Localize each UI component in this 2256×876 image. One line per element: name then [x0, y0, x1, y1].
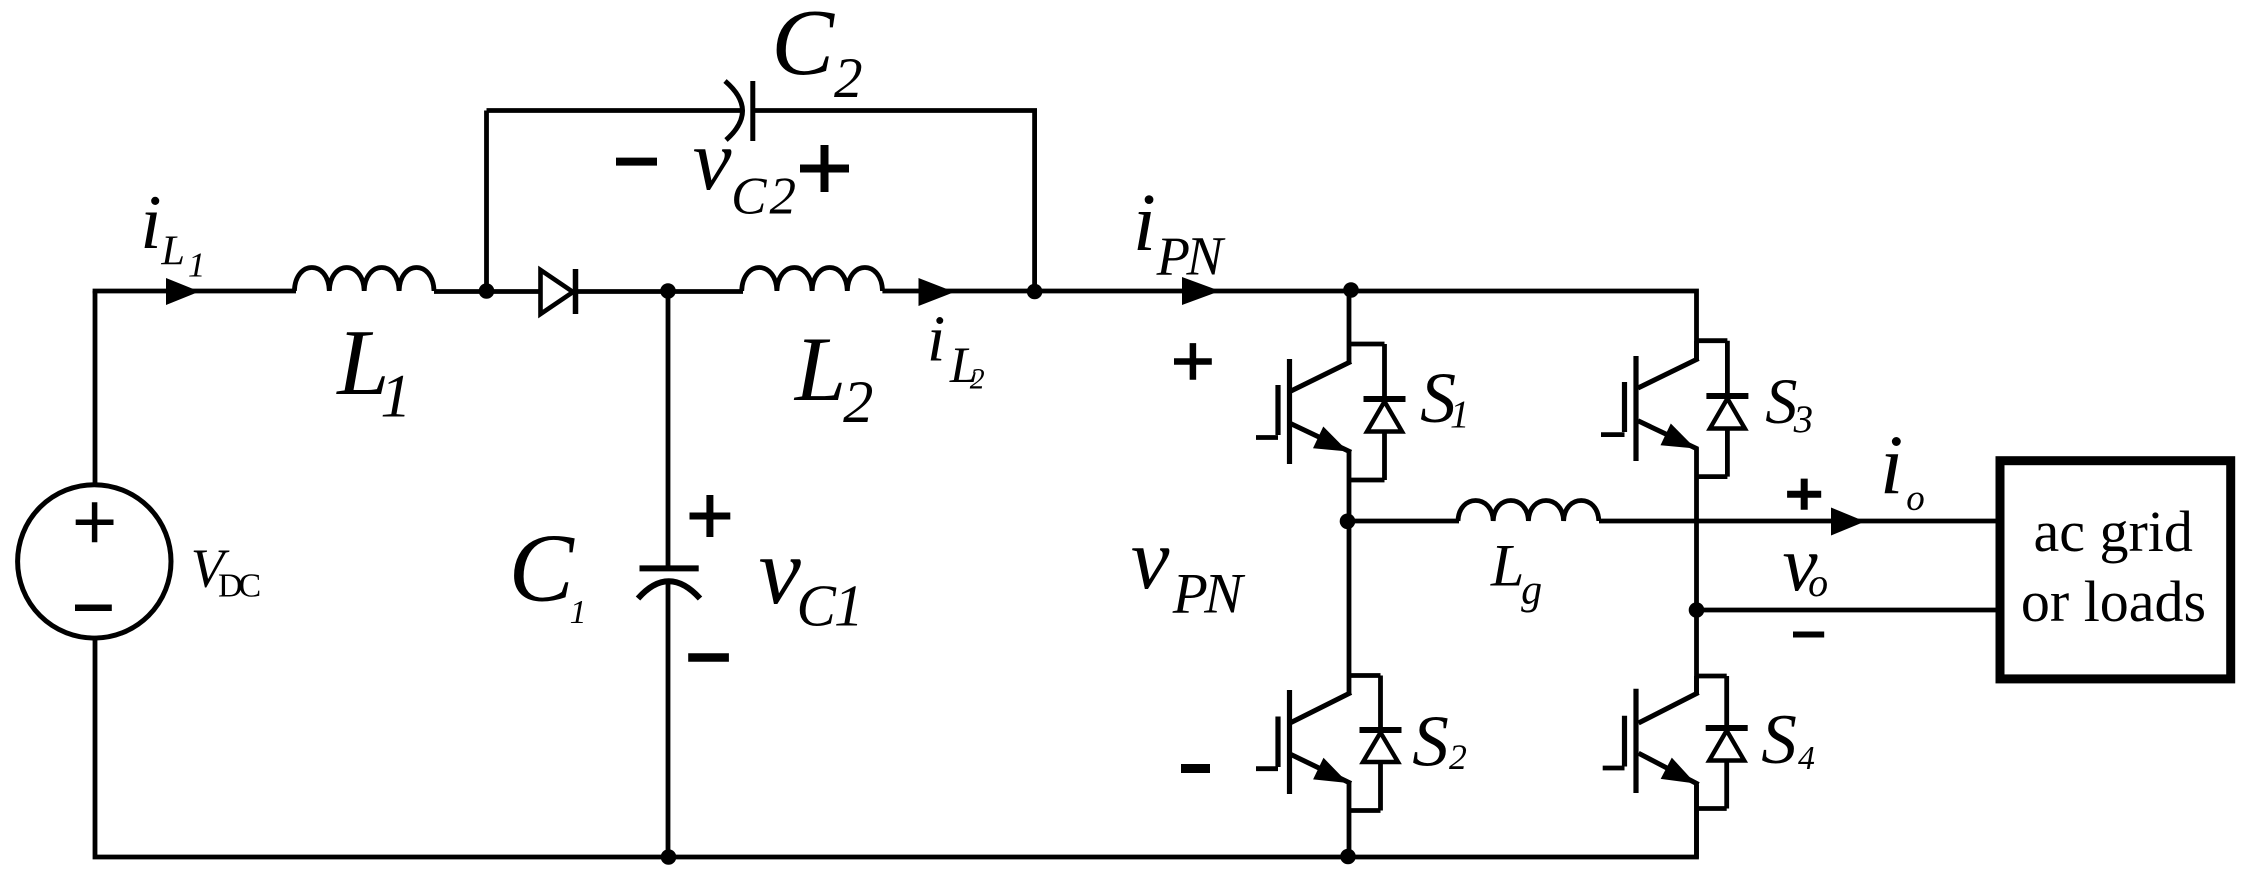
- transistor S2 (IGBT) collector diagonal: [1291, 693, 1351, 723]
- transistor S3 (IGBT) emitter wire: [1694, 448, 1699, 694]
- antiparallel diode of S3 (IGBT): anode/cathode leads: [1697, 341, 1728, 477]
- antiparallel diode of S1 (IGBT): cathode bar: [1364, 396, 1406, 402]
- transistor S3 (IGBT) gate bar: [1622, 382, 1627, 432]
- label iPN (dc-link current): [1133, 176, 1226, 287]
- wire: output bottom line from node E to ac-grid box: [1697, 608, 2001, 613]
- label vo (output voltage): [1783, 521, 1829, 608]
- svg-text:N: N: [1186, 226, 1226, 287]
- svg-text:1: 1: [380, 363, 411, 431]
- label vC1 (capacitor voltage): [759, 518, 864, 638]
- label Lg (grid inductor ref): [1490, 533, 1542, 614]
- svg-text:or loads: or loads: [2021, 569, 2206, 634]
- wire: top rail between L1 and diode D: [434, 289, 541, 294]
- capacitor C2 curved left plate: [725, 81, 743, 140]
- svg-text:i: i: [140, 179, 161, 265]
- transistor S1 (IGBT) collector wire: [1347, 291, 1352, 363]
- transistor S1 (IGBT) gate bar: [1275, 385, 1280, 435]
- transistor S4 (IGBT) gate lead: [1603, 766, 1625, 771]
- inductor Lg: [1458, 501, 1599, 521]
- voltage source plus sign: [76, 502, 114, 542]
- antiparallel diode of S4 (IGBT): anode/cathode leads: [1697, 676, 1727, 809]
- transistor S4 (IGBT) gate bar: [1622, 716, 1627, 767]
- svg-text:o: o: [1808, 560, 1828, 605]
- transistor S4 (IGBT) emitter arrowhead: [1661, 758, 1696, 784]
- C1 polarity plus sign: [690, 495, 731, 537]
- svg-text:S: S: [1761, 701, 1797, 779]
- wire: top rail between diode D and node B: [578, 289, 743, 294]
- svg-text:3: 3: [1793, 398, 1813, 441]
- wire: C1 branch upper (node B down to C1 top plate): [666, 291, 671, 568]
- transistor S1 (IGBT) collector diagonal: [1291, 362, 1351, 392]
- svg-text:1: 1: [188, 245, 206, 284]
- svg-text:2: 2: [1449, 737, 1467, 777]
- current arrow iL1: [166, 278, 200, 305]
- svg-text:C: C: [509, 514, 576, 622]
- transistor S3 (IGBT) body bar: [1633, 356, 1638, 461]
- vPN plus sign: [1174, 343, 1212, 380]
- transistor S3 (IGBT) emitter diagonal: [1638, 421, 1698, 450]
- svg-text:v: v: [759, 518, 802, 624]
- wire: top rail from L2 to bridge top-right corner: [882, 291, 1696, 360]
- svg-text:2: 2: [770, 168, 797, 226]
- wire: top rail left segment (source corner to L1): [93, 289, 296, 294]
- svg-text:L: L: [160, 227, 185, 274]
- wire: C1 branch lower (C1 bottom to bottom rail node): [666, 584, 671, 857]
- label vC2 (capacitor voltage): [693, 111, 796, 226]
- current arrow iL2: [919, 278, 955, 306]
- antiparallel diode of S4 (IGBT): cathode bar: [1706, 725, 1748, 731]
- label L1 (inductor value): [335, 311, 411, 431]
- svg-text:2: 2: [834, 47, 863, 110]
- C2 polarity plus sign: [800, 145, 849, 192]
- voltage source minus sign: [75, 605, 112, 612]
- node N (C1 bottom / bottom rail): [661, 849, 677, 865]
- transistor S3 (IGBT) emitter arrowhead: [1661, 424, 1696, 449]
- transistor S4 (IGBT) collector wire: [1694, 676, 1699, 694]
- node B (diode-L2-C1 junction): [660, 283, 676, 299]
- antiparallel diode of S3 (IGBT): cathode bar: [1706, 393, 1748, 399]
- svg-text:L: L: [1490, 533, 1524, 600]
- label vPN (dc-link voltage): [1131, 511, 1246, 625]
- label iL2 (current into bridge): [927, 303, 985, 396]
- svg-text:i: i: [1133, 176, 1156, 268]
- svg-text:v: v: [1131, 511, 1170, 607]
- transistor S2 (IGBT) collector wire: [1347, 521, 1352, 694]
- svg-text:i: i: [927, 303, 945, 376]
- svg-text:L: L: [793, 318, 846, 420]
- capacitor C1 top plate: [640, 565, 699, 571]
- wire: C2 branch top-right horizontal and right vertical down to node C: [753, 111, 1035, 292]
- transistor S1 (IGBT) emitter wire: [1347, 451, 1352, 521]
- C1 polarity minus sign: [688, 653, 729, 662]
- svg-text:1: 1: [834, 572, 864, 638]
- svg-text:2: 2: [843, 369, 873, 436]
- label C1 (capacitor ref): [509, 514, 587, 631]
- transistor S2 (IGBT) gate lead: [1256, 766, 1278, 771]
- transistor S4 (IGBT) emitter diagonal: [1639, 753, 1699, 784]
- transistor S3 (IGBT) collector diagonal: [1638, 359, 1699, 389]
- inductor L1: [294, 268, 434, 291]
- node E (right leg midpoint / vo): [1689, 602, 1705, 618]
- C2 polarity minus sign: [616, 158, 657, 166]
- label L2 (inductor ref): [793, 318, 873, 436]
- wire: left branch from source up to top rail: [93, 291, 98, 486]
- wire: bridge mid rail from node D to Lg: [1349, 519, 1460, 524]
- transistor S4 (IGBT) collector-to-diode jog: [1697, 674, 1727, 679]
- svg-text:1: 1: [570, 594, 587, 631]
- node D (left leg midpoint / Lg): [1340, 514, 1356, 530]
- transistor S3 (IGBT) collector-to-diode jog: [1697, 338, 1728, 343]
- svg-text:C: C: [797, 572, 837, 638]
- svg-text:P: P: [1172, 563, 1208, 626]
- transistor S1 (IGBT) body bar: [1287, 359, 1292, 464]
- label S1 (switch ref): [1420, 358, 1469, 438]
- node P (bridge left leg top): [1343, 282, 1359, 298]
- svg-text:o: o: [1906, 478, 1925, 519]
- capacitor C2 straight right plate: [750, 81, 755, 141]
- transistor S1 (IGBT) emitter arrowhead: [1313, 427, 1348, 452]
- svg-text:C: C: [239, 568, 262, 605]
- diode D triangle: [541, 270, 574, 314]
- wire: C2 branch left vertical (node A up): [484, 111, 489, 292]
- transistor S3 (IGBT) collector wire: [1694, 341, 1699, 360]
- antiparallel diode of S2 (IGBT): triangle: [1363, 733, 1398, 763]
- voltage source VDC circle: [18, 485, 171, 638]
- io plus sign: [1787, 479, 1821, 510]
- transistor S2 (IGBT) collector-to-diode jog: [1349, 673, 1381, 678]
- transistor S2 (IGBT) emitter diagonal: [1291, 755, 1351, 784]
- transistor S1 (IGBT) emitter diagonal: [1291, 424, 1351, 453]
- label iL1 (current into L1): [140, 179, 205, 285]
- label C2 (capacitor ref): [771, 0, 862, 110]
- label io (output current): [1880, 419, 1925, 519]
- transistor S4 (IGBT) emitter wire: [1694, 783, 1699, 858]
- svg-text:C: C: [771, 0, 835, 95]
- svg-text:4: 4: [1798, 740, 1815, 777]
- antiparallel diode of S4 (IGBT): triangle: [1709, 731, 1744, 761]
- current arrow io: [1831, 508, 1865, 536]
- wire: source bottom to bottom rail, bottom rail, right corner up into S4 emitter: [95, 637, 1697, 857]
- transistor S4 (IGBT) body bar: [1633, 689, 1638, 793]
- antiparallel diode of S2 (IGBT): anode/cathode leads: [1349, 676, 1381, 811]
- inductor L2: [742, 268, 883, 291]
- transistor S1 (IGBT) gate lead: [1256, 435, 1278, 440]
- antiparallel diode of S2 (IGBT): cathode bar: [1360, 727, 1402, 733]
- vo minus sign: [1793, 632, 1824, 638]
- ac grid or loads box: [2000, 461, 2231, 679]
- svg-text:1: 1: [1450, 393, 1469, 436]
- antiparallel diode of S1 (IGBT): triangle: [1367, 402, 1402, 432]
- node A (L1-diode-C2 junction): [479, 283, 495, 299]
- capacitor C1 curved bottom plate: [638, 581, 700, 598]
- svg-text:i: i: [1880, 419, 1903, 512]
- svg-text:P: P: [1156, 226, 1190, 287]
- svg-text:C: C: [731, 168, 767, 226]
- label VDC (source voltage): [191, 538, 261, 605]
- svg-text:g: g: [1521, 568, 1542, 614]
- transistor S4 (IGBT) collector diagonal: [1639, 693, 1699, 724]
- label S4 (switch ref): [1761, 701, 1815, 779]
- transistor S3 (IGBT) gate lead: [1601, 432, 1625, 437]
- label S3 (switch ref): [1765, 366, 1813, 441]
- wire: output top line from Lg through crossing to ac-grid box: [1599, 519, 2000, 524]
- transistor S2 (IGBT) emitter wire: [1347, 783, 1352, 858]
- svg-text:ac grid: ac grid: [2033, 499, 2192, 564]
- transistor S1 (IGBT) collector-to-diode jog: [1349, 342, 1385, 347]
- antiparallel diode of S3 (IGBT): triangle: [1710, 399, 1745, 429]
- wire: C2 branch top-left horizontal: [487, 108, 741, 113]
- label S2 (switch ref): [1412, 700, 1467, 781]
- svg-text:2: 2: [970, 363, 985, 396]
- node C (L2-C2-bridge junction): [1027, 284, 1043, 300]
- antiparallel diode of S1 (IGBT): anode/cathode leads: [1349, 344, 1385, 480]
- vPN minus sign: [1181, 764, 1210, 773]
- current arrow iPN: [1182, 277, 1220, 305]
- diode D cathode bar: [573, 269, 579, 314]
- node (S2 emitter / bottom rail): [1340, 849, 1356, 865]
- transistor S2 (IGBT) emitter arrowhead: [1313, 758, 1348, 783]
- svg-text:S: S: [1412, 700, 1449, 781]
- transistor S2 (IGBT) body bar: [1287, 690, 1292, 794]
- svg-text:N: N: [1203, 563, 1246, 626]
- svg-text:v: v: [693, 111, 732, 208]
- transistor S2 (IGBT) gate bar: [1275, 717, 1280, 768]
